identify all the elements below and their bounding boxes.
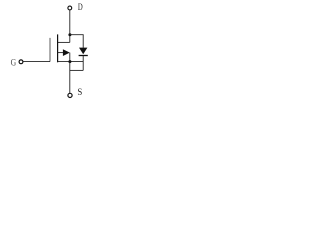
svg-text:G: G [11,56,17,67]
svg-text:S: S [77,88,82,99]
svg-text:D: D [78,2,83,13]
